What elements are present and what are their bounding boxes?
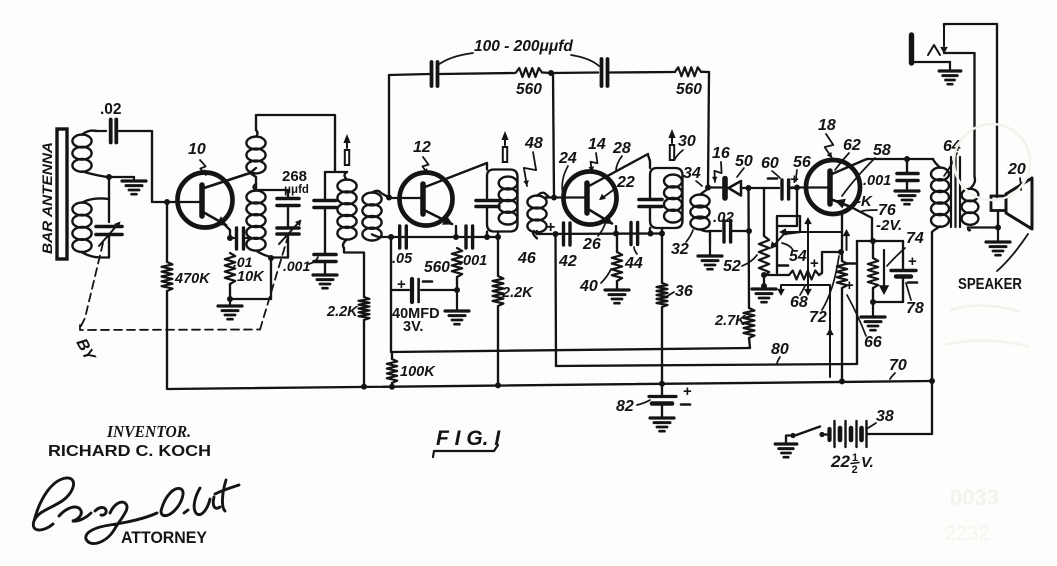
transistor Q12 collector lead	[425, 163, 487, 187]
T3 drop to cap bottom dot	[649, 228, 651, 234]
svg-text:26: 26	[582, 236, 601, 253]
svg-text:BAR ANTENNA: BAR ANTENNA	[39, 142, 55, 254]
svg-text:60: 60	[761, 155, 779, 172]
pointer for 82	[637, 400, 650, 405]
wire .02 to transistor 10 base	[119, 131, 200, 202]
wire Q10 emitter down	[224, 224, 230, 238]
wire tank bottom	[271, 256, 288, 258]
switch blade	[795, 427, 820, 436]
svg-text:56: 56	[793, 154, 811, 171]
capacitor 42	[562, 223, 565, 245]
antenna coil L1 (top winding)	[72, 135, 91, 148]
AVC rail A	[391, 348, 750, 352]
tank capacitor T2	[476, 199, 499, 203]
T3 drop to coil bottom dot	[661, 228, 663, 234]
oscillator feedback coil L3	[246, 137, 265, 150]
minus sign 82	[681, 403, 690, 406]
pointer for 64	[944, 153, 957, 176]
minus sign 66	[846, 262, 855, 265]
junction dot 2.2K on ground rail	[361, 384, 367, 390]
pointer for 74	[887, 248, 905, 266]
junction dot bias node	[838, 249, 844, 255]
svg-text:82: 82	[616, 398, 634, 415]
svg-text:12: 12	[413, 139, 431, 156]
svg-text:.001: .001	[863, 173, 891, 189]
pointer for 80	[777, 357, 780, 363]
svg-text:+: +	[810, 255, 819, 272]
tuning slug arrow T3	[670, 145, 674, 160]
T2 drop to cap bottom dot	[486, 232, 488, 238]
svg-text:470K: 470K	[174, 271, 211, 287]
resistor 54 row	[764, 274, 789, 276]
svg-text:72: 72	[809, 309, 827, 326]
svg-text:560: 560	[516, 81, 542, 98]
svg-text:44: 44	[624, 255, 643, 272]
wire coil L1 top to .02 capacitor	[95, 130, 106, 132]
diode 16/50 cathode bar	[722, 179, 728, 199]
svg-text:68: 68	[790, 294, 808, 311]
pointer lightning for 18	[825, 134, 834, 158]
junction dot Q18 base	[794, 185, 800, 191]
svg-text:32: 32	[671, 241, 689, 258]
svg-text:10: 10	[188, 141, 206, 158]
pointer for 68	[800, 286, 805, 295]
svg-text:2232: 2232	[945, 523, 990, 545]
pointer for 58	[842, 158, 875, 196]
svg-text:-K: -K	[856, 193, 873, 210]
wire primary bottom down to rail	[931, 232, 933, 381]
wire L6 to Q12 base	[389, 197, 421, 199]
capacitor .001 to ground	[314, 253, 336, 257]
svg-text:3V.: 3V.	[403, 319, 423, 335]
antenna coil L2 (bottom winding)	[72, 203, 91, 216]
primary coil T2	[499, 177, 518, 190]
pointer lightning for 48	[524, 152, 536, 186]
svg-text:268: 268	[282, 168, 307, 185]
secondary coil L6 to Q12 base	[362, 193, 381, 206]
primary coil T3	[664, 175, 682, 188]
secondary bottom wire to speaker node	[968, 226, 998, 228]
ground g3 under .001	[313, 273, 337, 276]
wire detector node down (to 2.7K)	[747, 188, 750, 308]
wire Q14 emitter to row	[615, 226, 617, 234]
battery left terminal dot	[819, 432, 824, 437]
resistor 2.2K first	[359, 297, 370, 320]
svg-text:2.7K: 2.7K	[714, 313, 747, 329]
svg-text:80: 80	[771, 341, 789, 358]
volume pot 52 body	[763, 188, 765, 236]
secondary coil 46	[527, 196, 546, 209]
junction dot emitter node	[227, 235, 233, 241]
svg-text:+: +	[908, 253, 917, 270]
rail B riser	[856, 241, 858, 364]
svg-text:μμfd: μμfd	[284, 184, 309, 196]
wire coil46 bottom join	[536, 231, 538, 234]
wire coil34 top to diode	[708, 186, 722, 188]
svg-text:38: 38	[876, 408, 894, 425]
speaker horn	[1006, 178, 1032, 229]
pointer curve to cap 2	[571, 55, 599, 66]
ground g1 (antenna)	[133, 177, 135, 181]
wire down to AVC rail B	[554, 234, 557, 366]
wire coil46 top to Q14 base	[545, 196, 585, 198]
jack switch chevron	[928, 45, 940, 55]
svg-text:14: 14	[588, 136, 606, 153]
ground g4 under 560	[456, 290, 458, 311]
switch wire to ground	[786, 436, 793, 445]
junction dot row-to-rail-B	[553, 231, 559, 237]
wire feedback right leg down to detector node	[708, 72, 709, 188]
pot 52 wiper arrow	[772, 234, 784, 248]
wire coil34 bottom node	[709, 231, 711, 244]
svg-text:SPEAKER: SPEAKER	[958, 276, 1022, 293]
battery 38 cells	[827, 429, 831, 440]
svg-text:52: 52	[723, 258, 741, 275]
wiper riser to AVC line	[777, 216, 800, 273]
transistor Q14 collector lead	[589, 154, 648, 186]
pointer lightning for 16	[714, 162, 721, 182]
capacitor 100-200uufd second	[551, 71, 598, 74]
svg-text:+: +	[397, 276, 406, 293]
pointer lightning for 12	[422, 157, 428, 174]
capacitor 40MFD plates	[410, 279, 414, 302]
svg-text:10K: 10K	[237, 269, 265, 285]
junction dot 66 on rail	[839, 378, 845, 384]
transistor Q14 circle	[564, 172, 617, 225]
resistor 10K	[225, 253, 235, 284]
capacitor .05	[398, 226, 401, 248]
pointer for 36	[666, 292, 674, 297]
arrowed AVC line to left	[783, 231, 842, 233]
tuning slug arrow T1	[345, 150, 349, 165]
resistor 470K	[166, 202, 168, 262]
pointer for 78	[906, 283, 911, 300]
junction dot 74 bottom	[870, 299, 876, 305]
svg-text:ATTORNEY: ATTORNEY	[121, 529, 207, 547]
junction dot detector top node	[705, 185, 711, 191]
junction dot 74 top	[870, 238, 876, 244]
svg-text:42: 42	[558, 253, 577, 270]
svg-text:100 - 200μμfd: 100 - 200μμfd	[474, 38, 573, 55]
svg-text:58: 58	[873, 142, 891, 159]
minus sign 78	[908, 281, 917, 284]
svg-text:560: 560	[676, 81, 702, 98]
pointer for 30	[675, 150, 683, 159]
svg-text:V.: V.	[861, 454, 874, 471]
svg-text:40: 40	[579, 278, 598, 295]
node A junction below L1	[106, 174, 112, 180]
capacitor 100-200uufd first	[430, 62, 434, 86]
svg-text:.02: .02	[713, 209, 735, 226]
pointer for 70	[890, 373, 895, 379]
diode 16/50 triangle	[729, 181, 742, 196]
resistor 560 emitter stage12	[452, 248, 462, 277]
tank loop T3	[648, 155, 650, 161]
ground g11 battery switch	[775, 442, 797, 445]
resistor 560 second (top)	[675, 67, 701, 76]
transistor Q14 emitter lead	[588, 209, 612, 224]
up arrow on wire x830	[826, 328, 834, 335]
feedback top rail	[389, 74, 429, 75]
svg-text:F I G. I: F I G. I	[436, 427, 501, 450]
transistor Q10 emitter lead	[203, 212, 226, 225]
tickler coil L5	[337, 180, 356, 193]
junction dot 10K bottom	[227, 296, 233, 302]
wire 10K bottom to tank bottom riser	[230, 258, 271, 299]
junction dot .02 right	[746, 228, 752, 234]
svg-text:INVENTOR.: INVENTOR.	[106, 422, 191, 441]
wire row left riser down to AVC rail A	[390, 237, 392, 352]
pointer for 76	[862, 210, 877, 211]
AVC rail B 80	[556, 364, 857, 366]
svg-text:28: 28	[612, 140, 631, 157]
svg-text:2.2K: 2.2K	[326, 304, 359, 320]
svg-text:62: 62	[843, 137, 861, 154]
ground g7 under .001 output	[895, 189, 919, 192]
pointer for 54	[782, 243, 793, 250]
capacitor 268uufd fixed	[287, 190, 289, 197]
arrow of variable capacitor 1	[99, 223, 119, 246]
electrolytic 40MFD row	[391, 289, 409, 291]
pointer for 72	[822, 256, 839, 310]
svg-text:0033: 0033	[950, 485, 999, 510]
tank loop T2	[486, 163, 488, 170]
cap column x=325 coupling capacitor	[324, 172, 326, 199]
svg-text:22: 22	[830, 452, 850, 471]
junction dot detector output	[746, 185, 752, 191]
ground g13 under speaker node	[997, 228, 999, 243]
capacitor .001 output	[906, 159, 908, 172]
transistor Q10 circle	[178, 173, 233, 228]
wire junction to ground g1	[109, 176, 134, 178]
svg-text:20: 20	[1007, 161, 1026, 178]
svg-text:560: 560	[424, 259, 450, 276]
resistor 40 emitter	[612, 252, 622, 281]
junction dot Q12 base node	[386, 195, 392, 201]
transistor Q12 circle	[400, 173, 453, 226]
ground g12 jack	[939, 69, 961, 72]
junction dot .001 output	[904, 156, 910, 162]
svg-text:.001: .001	[283, 258, 310, 274]
svg-text:100K: 100K	[400, 364, 436, 380]
transformer 64 primary coil	[931, 168, 949, 181]
junction dot 560 bottom	[454, 287, 460, 293]
wire diode to detector output node	[741, 187, 764, 189]
svg-text:.05: .05	[392, 251, 413, 267]
capacitor 44	[629, 223, 632, 245]
resistor 2.2K second	[497, 237, 499, 276]
wire junction down to variable capacitor	[108, 177, 110, 222]
transistor Q12 emitter lead	[424, 210, 452, 224]
capacitor .02 (input)	[109, 120, 113, 143]
pointer for 20	[1020, 178, 1021, 190]
pointer for 24	[562, 166, 568, 195]
wire L3 top loop to tickler	[256, 115, 335, 172]
junction dot feedback node	[548, 70, 554, 76]
up arrow stub near 66	[846, 234, 848, 250]
svg-text:2: 2	[852, 464, 858, 476]
svg-text:-2V.: -2V.	[876, 217, 902, 234]
junction dot 2.2K second on rail	[495, 382, 501, 388]
pointer for 62	[835, 153, 849, 170]
svg-text:78: 78	[906, 300, 924, 317]
variable capacitor tuning gang 2	[287, 206, 289, 227]
junction dot feedback at Q14 base	[551, 195, 557, 201]
ghost print-through marks	[945, 124, 1030, 545]
wire collector node to coils	[250, 168, 256, 173]
speaker wire from box	[997, 211, 999, 228]
wire top link to tickler L5	[325, 171, 347, 173]
svg-text:70: 70	[889, 357, 907, 374]
pointer for 28	[616, 156, 622, 171]
speaker voice coil box	[991, 196, 1006, 211]
signature George A. Gust	[33, 478, 239, 544]
transistor Q18 circle	[806, 160, 860, 214]
transistor Q14 base bar	[584, 183, 590, 213]
bracket wire 68	[781, 285, 830, 377]
capacitor 82 electrolytic	[661, 384, 663, 395]
jack switch arrow down	[943, 26, 945, 46]
svg-text:.02: .02	[100, 101, 122, 118]
minus sign 40MFD	[423, 280, 432, 283]
wire feedback node down to Q14 base	[553, 73, 554, 198]
tank coil L4	[246, 191, 265, 204]
battery feed wire	[867, 433, 932, 435]
minus sign 54	[778, 264, 788, 267]
wire emitter left branch	[842, 207, 851, 252]
wire tank top to cap column	[255, 184, 257, 190]
ground g2 under 10K	[229, 299, 231, 306]
pointer for 52	[742, 255, 757, 266]
ground g8 under pot	[752, 287, 776, 290]
pointer for 38	[866, 423, 876, 429]
FIG.1 underline	[433, 445, 498, 457]
pointer for 56	[796, 170, 797, 181]
pointer lightning for 14	[591, 153, 598, 172]
74 loop bottom wire	[873, 301, 903, 303]
ground g9 under 74 loop	[872, 302, 874, 317]
svg-text:RICHARD C. KOCH: RICHARD C. KOCH	[48, 443, 211, 460]
jack top wire	[944, 24, 997, 26]
junction dot Q10 base node	[164, 199, 170, 205]
arrow through 74	[883, 250, 885, 286]
svg-text:24: 24	[558, 150, 577, 167]
ground rail C	[168, 381, 932, 389]
wire Q12 base node riser	[388, 75, 390, 198]
svg-text:+: +	[845, 277, 854, 294]
transistor Q18 emitter lead	[833, 200, 851, 207]
pointer arrow for 22	[601, 188, 616, 199]
svg-text:36: 36	[675, 283, 693, 300]
pointer for 26	[598, 224, 605, 236]
pointer for 44	[634, 247, 637, 254]
capacitor .02 detector	[710, 230, 721, 232]
junction dot row left	[388, 234, 394, 240]
wire L2 bottom to varcap bottom	[100, 256, 109, 258]
transformer 64 core lines	[950, 157, 952, 227]
switch pivot dot	[790, 433, 795, 438]
junction dot tank bottom	[268, 255, 274, 261]
pointer for 60	[772, 171, 780, 178]
svg-text:46: 46	[517, 250, 536, 267]
base wire into Q18	[791, 186, 828, 188]
pointer for 66	[847, 295, 866, 336]
pointer for 40	[601, 269, 611, 283]
svg-text:48: 48	[524, 135, 543, 152]
bar antenna ferrite bar	[57, 129, 67, 259]
svg-text:54: 54	[789, 248, 807, 265]
earphone jack plug bar	[909, 35, 914, 63]
transistor Q12 base bar	[420, 184, 426, 214]
pointer for .001	[309, 257, 318, 264]
74 loop top wire	[857, 240, 903, 242]
capacitor .01	[230, 237, 234, 239]
double arrow bias wire	[807, 222, 809, 290]
ground g10 under 82	[650, 416, 674, 419]
collector wire to output transformer	[862, 159, 867, 161]
resistor 66	[841, 252, 843, 261]
junction dot speaker node	[995, 225, 1001, 231]
transistor Q18 collector lead	[832, 161, 862, 174]
dashed gang link line	[81, 243, 103, 326]
pointer for 50	[737, 168, 744, 177]
resistor 2.7K	[744, 308, 755, 338]
ground g6 detector	[709, 244, 711, 256]
transistor Q18 base bar	[827, 171, 833, 204]
pointer curve to cap 1	[438, 53, 473, 65]
svg-text:34: 34	[683, 165, 701, 182]
junction dot emitter node 12	[453, 234, 459, 240]
AVC riser from base node	[777, 188, 797, 226]
svg-text:16: 16	[712, 145, 730, 162]
transistor Q10 collector lead	[204, 173, 250, 188]
variable capacitor (tuning gang 1)	[96, 225, 122, 229]
junction dot 54 left	[761, 272, 767, 278]
resistor 100K	[391, 352, 393, 359]
svg-text:18: 18	[818, 117, 836, 134]
resistor 36	[661, 234, 663, 284]
capacitor .001 stage12	[464, 226, 467, 248]
jack sleeve wire to ground	[912, 61, 951, 63]
wire Q12 emitter down to row	[455, 226, 457, 237]
emitter row stage 12	[381, 236, 497, 238]
pointer for 34	[696, 181, 702, 186]
capacitor 60/56 in base lead	[769, 187, 779, 189]
pointer for 32	[686, 230, 693, 242]
svg-text:2.2K: 2.2K	[501, 285, 534, 301]
T2 drop to coil bottom dot	[497, 232, 499, 238]
ground g5 under 40	[605, 288, 629, 291]
minus sign 60	[768, 177, 777, 180]
wire emitter right branch to 74 loop	[851, 207, 872, 240]
tank capacitor T3	[639, 198, 662, 202]
transformer 64 secondary coil	[962, 189, 979, 201]
arrow of variable capacitor 2	[279, 221, 300, 244]
emitter row stage 14	[537, 232, 663, 235]
tuning slug arrow T2	[503, 147, 507, 162]
junction dot emitter node 14	[613, 231, 619, 237]
speaker feed wire	[996, 24, 998, 197]
svg-text:+: +	[683, 383, 692, 400]
svg-text:30: 30	[678, 133, 696, 150]
pointer lightning for 10	[200, 160, 206, 175]
pot 52 bottom to ground	[763, 276, 765, 286]
wire rail C right end down	[929, 378, 935, 384]
wire detector output to cap 60	[764, 187, 769, 189]
resistor 54 right riser	[819, 252, 840, 275]
junction dot 36 on rail	[659, 381, 665, 387]
resistor 74	[872, 241, 874, 258]
